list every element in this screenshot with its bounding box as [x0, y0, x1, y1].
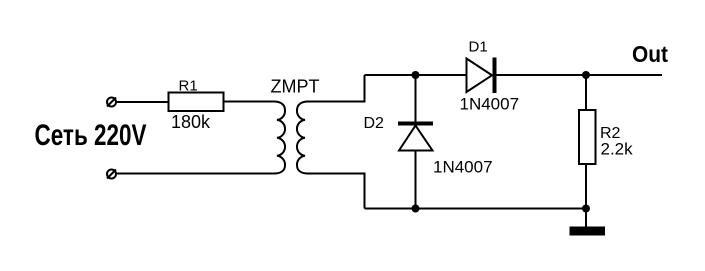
wire X2 to transformer primary bottom [116, 173, 275, 175]
svg-text:Сеть 220V: Сеть 220V [35, 119, 147, 152]
svg-text:180k: 180k [171, 112, 211, 132]
junction node top of R2 [582, 71, 590, 79]
junction node top of D2 [412, 71, 420, 79]
junction node bottom of D2 [412, 205, 420, 213]
svg-text:D2: D2 [364, 115, 385, 132]
svg-text:ZMPT: ZMPT [271, 77, 320, 97]
junction node bottom of R2 [582, 205, 590, 213]
svg-text:Out: Out [632, 41, 668, 67]
diode D2 body (vertical, pointing up) [398, 75, 433, 209]
transformer ZMPT primary winding [274, 102, 285, 174]
wire top rail: D1 cathode to Out [497, 74, 663, 76]
diode D1 body (horizontal, pointing right) [467, 58, 495, 94]
svg-text:R1: R1 [179, 78, 198, 95]
wire R1 to transformer primary top [224, 101, 275, 103]
svg-text:1N4007: 1N4007 [433, 158, 493, 177]
svg-text:1N4007: 1N4007 [460, 95, 520, 114]
svg-text:2.2k: 2.2k [601, 140, 634, 159]
wire top rail: step to D1 anode [365, 74, 467, 76]
resistor R1 body [169, 93, 224, 112]
ground symbol [570, 227, 606, 236]
wire X1 to R1 [116, 101, 169, 103]
transformer ZMPT secondary winding [297, 102, 308, 174]
resistor R2 body [579, 75, 596, 227]
wire bottom rail [365, 208, 587, 210]
terminal X2 (bottom input) [107, 170, 116, 179]
wire secondary bottom to bottom rail step [308, 174, 365, 209]
wire secondary top to top rail step [308, 75, 365, 102]
svg-text:D1: D1 [469, 39, 488, 56]
terminal X1 (top input) [107, 98, 116, 107]
